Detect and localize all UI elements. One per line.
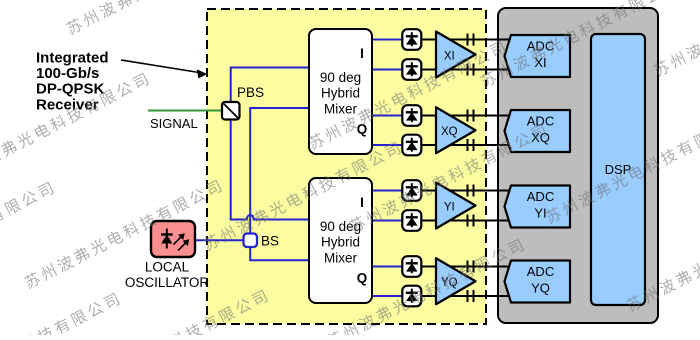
svg-text:90 deg: 90 deg — [320, 70, 361, 85]
wire PBS to mixer1 upper input — [231, 68, 309, 103]
svg-text:100-Gb/s: 100-Gb/s — [36, 65, 99, 82]
annotation arrow — [121, 60, 207, 78]
svg-text:PBS: PBS — [237, 85, 264, 100]
svg-text:Integrated: Integrated — [36, 49, 109, 66]
wire signal green — [148, 110, 222, 112]
title annotation — [36, 49, 109, 113]
wire PD5 to ADC YI line1 — [421, 190, 511, 192]
svg-text:Q: Q — [357, 271, 368, 286]
wire mixer2 out4 to PD8 — [372, 295, 402, 297]
local oscillator laser box — [151, 221, 195, 257]
photodiode PD2 — [402, 59, 421, 80]
hybrid mixer U1 — [309, 29, 372, 154]
svg-text:ADC: ADC — [527, 264, 554, 279]
wire mixer1 out1 to PD1 — [372, 39, 402, 41]
wire BS to mixer2 lower input — [250, 247, 309, 260]
amplifier YQ — [436, 258, 476, 304]
svg-text:LOCAL: LOCAL — [145, 260, 190, 275]
amplifier YI — [436, 183, 476, 229]
PBS polarizing beam splitter — [222, 102, 240, 120]
wire LO to BS — [195, 239, 244, 241]
wire PD7 to ADC YQ line1 — [421, 266, 511, 268]
ADC XI — [505, 35, 571, 77]
hybrid mixer U2 — [309, 178, 372, 303]
photodiode PD8 — [402, 286, 421, 307]
wire PD1 to ADC XI line1 — [421, 39, 511, 41]
svg-text:I: I — [360, 46, 364, 61]
receiver dashed boundary box — [207, 9, 486, 324]
photodiode PD4 — [402, 135, 421, 156]
svg-text:BS: BS — [261, 234, 279, 249]
svg-text:Mixer: Mixer — [324, 250, 358, 265]
coupling capacitor marks YI — [468, 185, 474, 227]
svg-text:Hybrid: Hybrid — [321, 86, 360, 101]
svg-text:SIGNAL: SIGNAL — [150, 116, 198, 131]
coupling capacitor marks XQ — [468, 110, 474, 152]
BS beam splitter — [244, 234, 258, 248]
svg-text:Hybrid: Hybrid — [321, 235, 360, 250]
DSP module gray box — [498, 8, 658, 323]
wire mixer1 out3 to PD3 — [372, 115, 402, 117]
svg-text:ADC: ADC — [527, 189, 554, 204]
wire BS to mixer1 lower input — [250, 108, 309, 234]
photodiode PD5 — [402, 180, 421, 201]
ADC YQ — [505, 261, 571, 303]
svg-text:I: I — [360, 195, 364, 210]
svg-text:XI: XI — [444, 50, 455, 62]
LOCAL OSCILLATOR label — [125, 260, 210, 291]
svg-text:XQ: XQ — [441, 126, 458, 138]
photodiode PD1 — [402, 29, 421, 50]
svg-text:OSCILLATOR: OSCILLATOR — [125, 275, 210, 290]
wire mixer1 out2 to PD2 — [372, 69, 402, 71]
wire mixer2 out3 to PD7 — [372, 266, 402, 268]
ADC YI — [505, 186, 571, 228]
wire PD8 to ADC YQ line2 — [421, 295, 511, 297]
svg-text:DP-QPSK: DP-QPSK — [36, 81, 105, 98]
photodiode PD7 — [402, 256, 421, 277]
svg-text:YI: YI — [444, 201, 455, 213]
wire PD4 to ADC XQ line2 — [421, 144, 511, 146]
wire mixer1 out4 to PD4 — [372, 144, 402, 146]
ADC XQ — [505, 110, 571, 152]
wire mixer2 out1 to PD5 — [372, 190, 402, 192]
amplifier XQ — [436, 107, 476, 153]
photodiode PD6 — [402, 210, 421, 231]
svg-text:YQ: YQ — [531, 281, 550, 296]
wire PD2 to ADC XI line2 — [421, 69, 511, 71]
wire PD6 to ADC YI line2 — [421, 220, 511, 222]
amplifier XI — [436, 32, 476, 78]
wire mixer2 out2 to PD6 — [372, 220, 402, 222]
wire PBS to mixer2 upper input with hop — [231, 120, 309, 220]
photodiode PD3 — [402, 105, 421, 126]
DSP block — [591, 34, 645, 305]
wire PD3 to ADC XQ line1 — [421, 115, 511, 117]
coupling capacitor marks YQ — [468, 261, 474, 303]
coupling capacitor marks XI — [468, 34, 474, 76]
